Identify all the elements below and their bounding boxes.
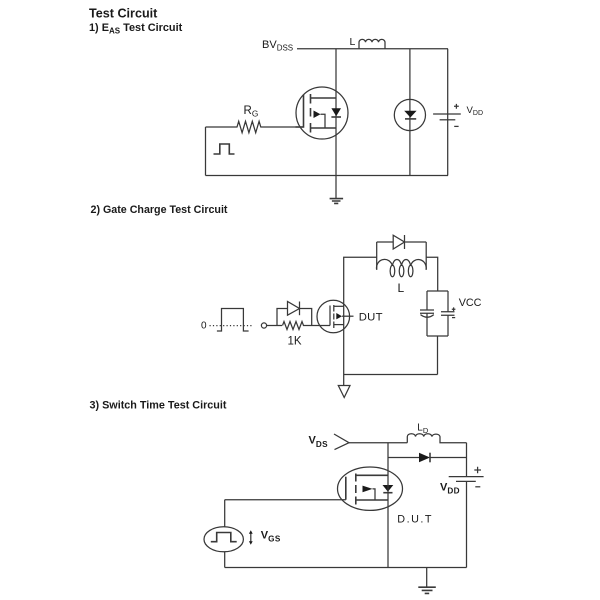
wire bottom rail 3 xyxy=(225,567,467,569)
pulse symbol 3 xyxy=(211,533,237,542)
wire clamp branch vertical xyxy=(409,49,411,176)
cap block right vertical top xyxy=(447,291,449,312)
mosfet Q1 channel segments xyxy=(310,94,312,133)
svg-text:0: 0 xyxy=(201,321,207,332)
input terminal circle xyxy=(261,323,266,328)
dotted zero line xyxy=(210,325,254,327)
cap block left vertical bottom xyxy=(426,313,428,336)
wire diode branch up-over xyxy=(277,309,312,326)
mosfet Q1 drain bar xyxy=(311,97,337,99)
mosfet DUT3 gate bar xyxy=(345,477,347,500)
parallel group right bar xyxy=(425,242,427,270)
wire diode branch 3 xyxy=(388,457,467,459)
mosfet DUT circle xyxy=(317,300,350,333)
mosfet DUT3 body diode bar xyxy=(383,492,392,494)
cap block top bar xyxy=(427,290,448,292)
label plus 3 xyxy=(474,467,481,474)
mosfet DUT body arrow xyxy=(336,313,342,319)
label plus 1 xyxy=(454,104,459,109)
mosfet DUT3 body arrow lead xyxy=(373,489,376,500)
mosfet DUT leader line xyxy=(342,315,354,317)
ground 1 bars xyxy=(330,199,344,204)
capacitor C1 plates xyxy=(420,310,434,313)
mosfet DUT3 drain bar xyxy=(356,474,388,476)
capacitor C1 arc xyxy=(421,315,434,318)
battery VDD3 long plate xyxy=(449,476,484,478)
svg-text:1) EAS Test Circuit: 1) EAS Test Circuit xyxy=(89,22,183,35)
wire DUT drain up and over xyxy=(344,257,377,385)
svg-text:RG: RG xyxy=(244,105,259,119)
svg-text:3) Switch Time Test Circuit: 3) Switch Time Test Circuit xyxy=(90,399,227,411)
battery VDD long plate xyxy=(433,113,461,115)
svg-text:VDD: VDD xyxy=(467,105,484,117)
ground 3 bars xyxy=(418,587,436,593)
diode D2 triangle xyxy=(288,302,300,316)
svg-text:D.U.T: D.U.T xyxy=(397,514,433,526)
svg-text:VDD: VDD xyxy=(440,481,460,495)
resistor 1K xyxy=(283,322,331,330)
wire top rail 3 xyxy=(349,442,408,444)
mosfet Q1 gate lead and gate bar xyxy=(296,95,304,128)
wire battery to bottom rail 3 xyxy=(466,481,468,567)
parallel group left bar xyxy=(376,242,378,270)
mosfet Q1 body diode bar xyxy=(331,116,341,118)
clamp diode D1 bar xyxy=(405,118,416,120)
cap C2 plus xyxy=(452,307,456,311)
mosfet DUT channel segments xyxy=(333,305,335,328)
capacitor C2 plates xyxy=(441,312,455,315)
wire input to network xyxy=(267,325,282,327)
wire gen top xyxy=(224,500,226,527)
mosfet DUT3 channel segments xyxy=(355,474,357,505)
label minus 3 xyxy=(475,486,480,488)
mosfet DUT source bar xyxy=(334,324,344,326)
svg-text:VGS: VGS xyxy=(261,529,281,543)
mosfet Q1 body diode triangle xyxy=(331,108,341,116)
mosfet DUT gate bar xyxy=(329,306,331,326)
svg-text:Test Circuit: Test Circuit xyxy=(89,6,158,20)
ground 3 stub xyxy=(426,568,428,588)
input arrow VDS xyxy=(334,434,349,450)
mosfet Q1 body arrow lead xyxy=(321,114,326,128)
mosfet Q1 circle xyxy=(296,87,348,139)
clamp diode D1 triangle xyxy=(404,111,416,118)
pulse waveform 2 xyxy=(217,309,249,332)
cap C2 minus xyxy=(452,317,455,319)
label minus 1 xyxy=(454,125,458,127)
wire drain vertical xyxy=(335,49,337,176)
inductor L2 loops xyxy=(390,265,413,276)
svg-text:L: L xyxy=(398,281,405,295)
mosfet Q1 source bar xyxy=(311,127,337,129)
ground arrow 2 xyxy=(338,386,350,398)
wire drain-source vertical 3 xyxy=(387,443,389,568)
wire group to cap xyxy=(426,257,438,291)
cap block bottom bar xyxy=(427,335,448,337)
wire battery vertical xyxy=(447,49,449,176)
battery VDD short plate xyxy=(440,119,456,121)
wire right vertical to battery 3 xyxy=(466,443,468,477)
inductor L xyxy=(359,39,385,48)
diode D4 triangle xyxy=(419,453,430,463)
mosfet Q1 body arrow xyxy=(314,111,321,119)
svg-text:VDS: VDS xyxy=(309,435,329,449)
inductor LD xyxy=(407,434,466,443)
diode D3 triangle xyxy=(393,235,404,249)
diode D3 bar xyxy=(404,235,406,249)
resistor RG xyxy=(206,121,304,132)
wire gen bottom xyxy=(224,552,226,568)
svg-text:VCC: VCC xyxy=(459,297,482,309)
cap block right vertical bottom xyxy=(447,315,449,336)
wire top rail xyxy=(297,48,448,50)
cap block left vertical top xyxy=(426,291,428,310)
svg-text:BVDSS: BVDSS xyxy=(262,39,293,53)
mosfet DUT3 ellipse xyxy=(338,467,403,510)
svg-text:DUT: DUT xyxy=(359,311,383,323)
pulse generator ellipse xyxy=(204,527,243,552)
svg-text:1K: 1K xyxy=(288,336,302,348)
diode D2 bar xyxy=(299,302,301,316)
wire cap to bottom rail xyxy=(437,336,439,375)
updown arrow xyxy=(250,533,252,542)
mosfet DUT3 body diode triangle xyxy=(383,485,394,492)
svg-text:L: L xyxy=(350,36,356,48)
ground 1 stub xyxy=(335,176,337,199)
battery VDD3 short plate xyxy=(456,480,476,482)
mosfet DUT drain bar xyxy=(334,305,344,307)
wire left vertical xyxy=(205,127,207,176)
clamp diode circle D1 xyxy=(394,99,425,130)
wire diode branch top xyxy=(377,241,427,243)
mosfet DUT3 body arrow xyxy=(363,486,373,493)
mosfet DUT3 source bar xyxy=(356,499,388,501)
svg-text:2) Gate Charge Test Circuit: 2) Gate Charge Test Circuit xyxy=(91,204,228,216)
mosfet DUT3 gate lead xyxy=(225,499,346,501)
wire bottom rail xyxy=(206,175,449,177)
wire bottom rail 2 xyxy=(344,374,438,376)
diode D4 bar xyxy=(429,453,431,463)
inductor L2 coil xyxy=(377,259,427,269)
pulse input symbol xyxy=(214,144,235,154)
